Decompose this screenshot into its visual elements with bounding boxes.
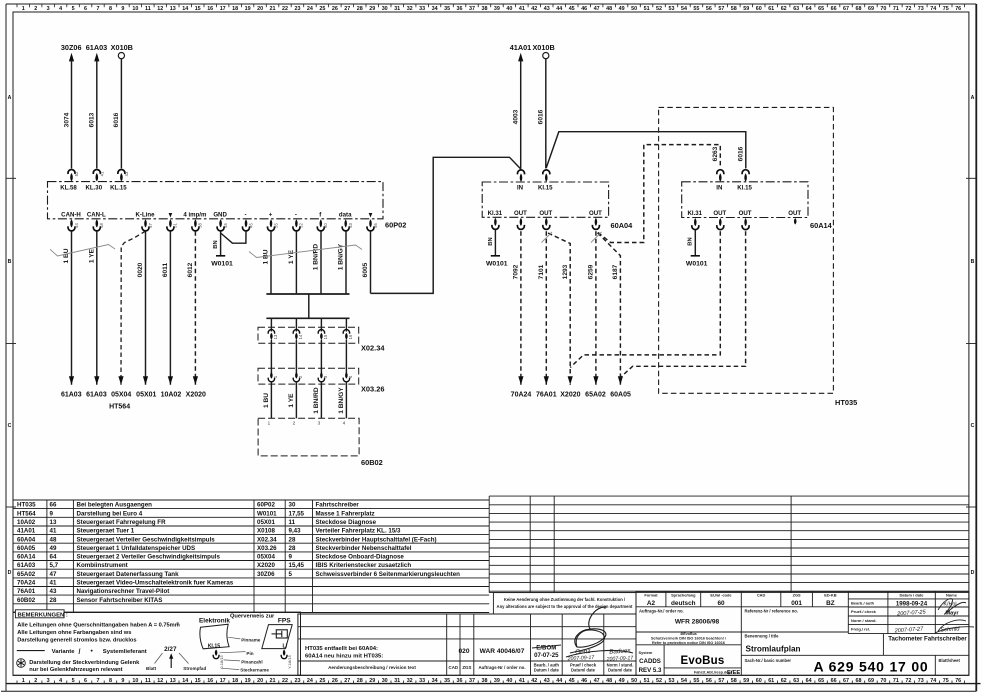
svg-text:CAD: CAD: [757, 593, 766, 598]
svg-text:6011: 6011: [162, 263, 169, 278]
svg-text:Bei belegten Ausgaengen: Bei belegten Ausgaengen: [77, 502, 153, 509]
svg-text:12: 12: [157, 6, 163, 12]
svg-text:E/EE: E/EE: [727, 670, 740, 676]
svg-text:X03.26: X03.26: [257, 545, 277, 552]
svg-text:52: 52: [656, 6, 662, 12]
svg-text:40: 40: [506, 678, 512, 684]
svg-text:1 YE: 1 YE: [288, 393, 295, 408]
remarks block BEMERKUNGEN: [13, 610, 301, 676]
wire 1 BN/GY (X03.26 to 60B02): [338, 387, 345, 414]
svg-text:3: 3: [318, 421, 321, 426]
svg-text:58: 58: [198, 223, 203, 228]
svg-text:05X01: 05X01: [136, 392, 156, 399]
svg-text:K-Line: K-Line: [136, 211, 156, 218]
svg-text:4: 4: [343, 421, 346, 426]
svg-text:CAN-L: CAN-L: [87, 211, 106, 218]
svg-text:60: 60: [323, 223, 328, 228]
svg-text:55: 55: [693, 678, 699, 684]
svg-text:0-18/15: 0-18/15: [219, 654, 224, 668]
svg-text:CAD: CAD: [449, 665, 459, 670]
svg-text:2: 2: [293, 421, 296, 426]
svg-text:76A01: 76A01: [17, 588, 36, 595]
svg-text:D: D: [971, 570, 975, 576]
svg-text:66: 66: [50, 502, 57, 509]
node X010B (terminal circle, right): [532, 43, 554, 59]
svg-text:71: 71: [893, 678, 899, 684]
60P02 pin 53 data: [339, 211, 353, 231]
svg-text:46: 46: [581, 678, 587, 684]
svg-text:Steuergeraet 2 Verteiler Gesch: Steuergeraet 2 Verteiler Geschwindigkeit…: [77, 554, 221, 561]
svg-text:Pin: Pin: [246, 651, 253, 656]
svg-text:2: 2: [34, 678, 37, 684]
svg-text:60A05: 60A05: [610, 392, 631, 399]
svg-text:70: 70: [880, 6, 886, 12]
wire 6011 (to 10A02): [162, 231, 173, 385]
svg-text:C: C: [8, 423, 12, 429]
revision table: [298, 614, 636, 675]
wire branch to 05X04 (dashed variant): [118, 231, 145, 385]
60A14 pin OUT (unconnected): [788, 210, 801, 225]
svg-text:34: 34: [432, 678, 438, 684]
svg-text:11: 11: [145, 6, 151, 12]
svg-text:64: 64: [50, 554, 57, 561]
svg-text:X02.34: X02.34: [257, 536, 277, 543]
svg-text:28: 28: [289, 536, 296, 543]
svg-text:Bearb./ auth: Bearb./ auth: [851, 601, 875, 606]
svg-text:1 BN/RD: 1 BN/RD: [313, 387, 320, 414]
svg-text:BZ: BZ: [826, 600, 835, 607]
wire 1 BN/RD (60P02 to bus): [313, 231, 321, 294]
svg-text:16: 16: [207, 678, 213, 684]
svg-text:61A03: 61A03: [86, 392, 107, 399]
svg-text:Datum / date: Datum / date: [899, 592, 924, 597]
svg-text:7092: 7092: [513, 264, 520, 279]
svg-text:30: 30: [382, 678, 388, 684]
svg-text:6016: 6016: [113, 112, 120, 127]
note HT564: [109, 404, 130, 411]
60P02 pin 48 CAN-L: [87, 211, 106, 231]
cross-reference symbol 2/27 (Blatt / Strompfad): [146, 646, 206, 671]
svg-text:47: 47: [50, 571, 57, 578]
svg-text:49: 49: [619, 6, 625, 12]
svg-text:05X04: 05X04: [111, 392, 131, 399]
60P02 pin 41 KL.30: [85, 170, 104, 192]
60P02 pin 45 -: [243, 211, 254, 231]
svg-text:X2020: X2020: [186, 392, 206, 399]
svg-text:1998-09-24: 1998-09-24: [896, 600, 928, 607]
svg-text:74: 74: [930, 678, 936, 684]
svg-text:Fahrtschreiber: Fahrtschreiber: [316, 502, 360, 509]
svg-text:2/27: 2/27: [164, 646, 177, 653]
svg-text:Steckdose Diagnose: Steckdose Diagnose: [316, 519, 377, 526]
svg-text:57: 57: [718, 678, 724, 684]
svg-text:X02.34: X02.34: [361, 344, 385, 353]
svg-text:Refer to protection notice DIN: Refer to protection notice DIN ISO 16016: [652, 641, 725, 645]
svg-text:72: 72: [905, 678, 911, 684]
svg-text:60A14: 60A14: [17, 554, 36, 561]
svg-text:40: 40: [506, 6, 512, 12]
svg-text:25: 25: [319, 678, 325, 684]
wire 1 YE (60P02 to bus): [288, 231, 296, 294]
svg-text:WAR 40046/07: WAR 40046/07: [480, 648, 525, 655]
svg-text:System: System: [639, 650, 653, 655]
svg-text:Masse 1 Fahrerplatz: Masse 1 Fahrerplatz: [316, 510, 375, 517]
wire 1 BU (60P02 to bus): [263, 231, 271, 294]
svg-text:Keine Aenderung ohne Zustimmun: Keine Aenderung ohne Zustimmung der fach…: [504, 597, 626, 602]
svg-text:Datum / date: Datum / date: [534, 668, 560, 673]
svg-text:15: 15: [195, 678, 201, 684]
svg-text:/: /: [79, 649, 81, 656]
svg-text:61A03: 61A03: [61, 392, 82, 399]
svg-text:KL.15: KL.15: [110, 184, 127, 191]
svg-text:6263: 6263: [712, 146, 719, 161]
svg-text:68: 68: [856, 678, 862, 684]
svg-text:Pinanzahl: Pinanzahl: [241, 659, 262, 664]
60A14 pin Kl.15: [737, 170, 752, 192]
svg-text:17: 17: [220, 6, 226, 12]
svg-text:47: 47: [594, 6, 600, 12]
svg-text:1 BN/GY: 1 BN/GY: [338, 387, 345, 414]
svg-text:60A04: 60A04: [611, 221, 634, 230]
svg-text:1 BN/RD: 1 BN/RD: [313, 244, 320, 271]
svg-text:35: 35: [444, 6, 450, 12]
svg-text:59: 59: [743, 678, 749, 684]
60P02 pin 54 CAN-H: [61, 211, 81, 231]
svg-text:3: 3: [47, 6, 50, 12]
60P02 pin 52 KL.58: [60, 170, 79, 192]
svg-text:X010B: X010B: [532, 43, 554, 52]
svg-text:5: 5: [72, 678, 75, 684]
wire 1 BN/RD (X03.26 to 60B02): [313, 387, 320, 414]
wire 4003: [512, 60, 520, 168]
svg-text:41: 41: [50, 528, 57, 535]
svg-text:63: 63: [793, 6, 799, 12]
svg-text:X0108: X0108: [257, 528, 275, 535]
svg-text:43: 43: [124, 171, 129, 176]
svg-text:45: 45: [569, 6, 575, 12]
svg-text:LI: LI: [282, 643, 287, 649]
svg-text:BN: BN: [688, 237, 694, 245]
svg-text:12: 12: [157, 678, 163, 684]
sensor 60B02 (Fahrtschreiber KITAS): [258, 418, 383, 467]
svg-text:ED-KB: ED-KB: [824, 593, 837, 598]
svg-text:60P02: 60P02: [257, 502, 275, 509]
svg-text:6259: 6259: [588, 264, 595, 279]
wire 1 BU (X03.26 to 60B02): [263, 393, 270, 408]
60P02 pin 60 f: [317, 211, 328, 231]
ground W0101 (below 60A14): [686, 256, 708, 268]
60A14 pin IN: [716, 170, 724, 192]
60A04 pin OUT: [539, 210, 552, 230]
60P02 pin 55 +: [268, 211, 279, 231]
svg-text:B: B: [8, 259, 12, 265]
wire 0020 (K-Line to 05X01): [137, 231, 148, 385]
svg-text:9,43: 9,43: [289, 528, 302, 535]
svg-text:HT564: HT564: [17, 510, 36, 517]
svg-text:69: 69: [868, 6, 874, 12]
X03.26 pin 4: [343, 372, 353, 418]
svg-text:IN: IN: [517, 185, 523, 192]
svg-text:OUT: OUT: [514, 210, 527, 217]
svg-text:nur bei Gelenkfahrzeugen relev: nur bei Gelenkfahrzeugen relevant: [29, 667, 122, 673]
svg-text:50: 50: [631, 6, 637, 12]
svg-text:1 YE: 1 YE: [89, 248, 96, 263]
svg-text:6187: 6187: [612, 264, 619, 279]
variant boundary HT035: [659, 107, 858, 407]
svg-text:28: 28: [357, 6, 363, 12]
svg-text:ZGS: ZGS: [462, 665, 471, 670]
60A04 pin OUT: [589, 210, 602, 230]
wire 6263 (dashed variant, 60A04 OUT to 60A14 IN): [598, 145, 720, 243]
svg-text:Kl.15: Kl.15: [737, 185, 752, 192]
svg-text:60: 60: [756, 6, 762, 12]
X03.26 pin 2: [293, 372, 303, 418]
bus link: [308, 294, 310, 318]
60A04 pin Kl.31: [488, 210, 503, 230]
svg-text:65: 65: [818, 678, 824, 684]
svg-text:Alle Leitungen ohne Querschnit: Alle Leitungen ohne Querschnittangaben h…: [17, 623, 180, 629]
svg-text:64: 64: [806, 678, 812, 684]
60P02 pin 57 K-Line: [136, 211, 156, 231]
60P02 pin 43 KL.15: [110, 170, 129, 192]
svg-text:A 629 540 17 00: A 629 540 17 00: [813, 659, 928, 675]
svg-text:32: 32: [407, 678, 413, 684]
svg-text:61: 61: [768, 6, 774, 12]
svg-text:22: 22: [282, 6, 288, 12]
svg-text:14: 14: [182, 6, 188, 12]
60A04 pin IN: [517, 170, 525, 192]
svg-text:Auftrags-Nr./ order no.: Auftrags-Nr./ order no.: [639, 609, 684, 614]
svg-text:4: 4: [59, 678, 62, 684]
svg-text:43: 43: [544, 6, 550, 12]
svg-text:22: 22: [282, 678, 288, 684]
svg-text:53: 53: [669, 678, 675, 684]
svg-text:Systemlieferant: Systemlieferant: [103, 649, 147, 655]
svg-text:05X04: 05X04: [257, 554, 275, 561]
svg-text:62: 62: [781, 6, 787, 12]
svg-text:Kl.31: Kl.31: [488, 210, 503, 217]
svg-text:Steckdose Onboard-Diagnose: Steckdose Onboard-Diagnose: [316, 554, 405, 561]
svg-text:26: 26: [332, 6, 338, 12]
svg-text:58: 58: [731, 678, 737, 684]
X03.26 pin 3: [318, 372, 328, 418]
svg-text:60: 60: [717, 600, 725, 607]
svg-text:48: 48: [99, 223, 104, 228]
svg-text:14: 14: [182, 678, 188, 684]
svg-text:38: 38: [482, 678, 488, 684]
svg-text:A: A: [8, 95, 12, 101]
svg-text:OUT: OUT: [713, 210, 726, 217]
svg-text:4 imp/m: 4 imp/m: [183, 211, 207, 218]
svg-text:9: 9: [121, 6, 124, 12]
svg-text:75: 75: [943, 678, 949, 684]
svg-text:Y-18/15: Y-18/15: [287, 654, 292, 668]
svg-text:41A01: 41A01: [510, 43, 532, 52]
svg-text:76A01: 76A01: [536, 392, 557, 399]
svg-text:Referenz-Nr / reference no.: Referenz-Nr / reference no.: [745, 609, 799, 614]
svg-text:7101: 7101: [538, 264, 545, 279]
ground W0101 (left): [211, 256, 233, 268]
wire 6016 (X010B to 60A04 KL.15 and 60A14 KL.15): [538, 59, 746, 169]
svg-text:Steckverbinder Hauptschalttafe: Steckverbinder Hauptschalttafel (E-Fach): [316, 536, 437, 543]
svg-text:13: 13: [50, 519, 57, 526]
svg-text:31: 31: [394, 678, 400, 684]
svg-text:67: 67: [843, 6, 849, 12]
svg-text:Sprache/lang: Sprache/lang: [671, 593, 696, 598]
wire BN (GND): [213, 231, 221, 255]
svg-text:54: 54: [681, 6, 687, 12]
60P02 pin 51 (spare): [167, 213, 178, 231]
svg-text:OUT: OUT: [788, 210, 801, 217]
svg-text:54: 54: [74, 223, 79, 228]
svg-text:33: 33: [419, 6, 425, 12]
svg-text:BN: BN: [213, 240, 219, 248]
destination labels 70A24 76A01 X2020 65A02 60A05: [511, 392, 631, 399]
svg-text:C: C: [971, 423, 975, 429]
svg-text:10: 10: [132, 6, 138, 12]
svg-text:37: 37: [469, 678, 475, 684]
svg-text:Datum/ date: Datum/ date: [608, 668, 633, 673]
svg-text:10: 10: [132, 678, 138, 684]
svg-text:Kombiinstrument: Kombiinstrument: [77, 562, 128, 569]
svg-text:70: 70: [880, 678, 886, 684]
60A14 pin Kl.31: [688, 210, 703, 230]
svg-text:HT035: HT035: [835, 398, 857, 407]
title block: [636, 591, 974, 676]
svg-text:27: 27: [344, 678, 350, 684]
svg-text:11: 11: [145, 678, 151, 684]
svg-text:Steuergeraet Datenerfassung Ta: Steuergeraet Datenerfassung Tank: [77, 571, 180, 578]
svg-text:IBIS Kriterienstecker zusaetzl: IBIS Kriterienstecker zusaetzlich: [316, 562, 412, 569]
svg-text:25: 25: [319, 6, 325, 12]
svg-text:33: 33: [419, 678, 425, 684]
svg-text:FPS: FPS: [278, 617, 291, 624]
svg-text:X010B: X010B: [111, 43, 133, 52]
svg-text:53: 53: [669, 6, 675, 12]
svg-text:2: 2: [34, 6, 37, 12]
svg-text:30Z06: 30Z06: [61, 43, 82, 52]
svg-text:53: 53: [348, 223, 353, 228]
svg-text:Steckername: Steckername: [240, 668, 269, 673]
svg-text:58: 58: [731, 6, 737, 12]
svg-text:48: 48: [50, 536, 57, 543]
wire 6013: [89, 60, 97, 168]
svg-text:Darstellung bei Euro 4: Darstellung bei Euro 4: [77, 510, 143, 517]
svg-text:63: 63: [793, 678, 799, 684]
svg-text:Steuergeraet Fahrregelung FR: Steuergeraet Fahrregelung FR: [77, 519, 167, 526]
svg-text:Blatt/sheet: Blatt/sheet: [939, 658, 961, 663]
svg-text:51: 51: [644, 678, 650, 684]
svg-text:52: 52: [299, 223, 304, 228]
svg-text:Schutzvermerk DIN ISO 16016 be: Schutzvermerk DIN ISO 16016 beachten! /: [651, 637, 727, 641]
svg-text:X2020: X2020: [560, 392, 580, 399]
X03.26 pin 1: [268, 372, 278, 418]
svg-text:1 BU: 1 BU: [63, 248, 70, 263]
wire 7101 (to 76A01): [538, 231, 549, 385]
svg-text:ZGS: ZGS: [793, 593, 801, 598]
svg-text:13: 13: [170, 678, 176, 684]
wire 1 BU (CAN-H to 61A03): [63, 231, 74, 385]
svg-text:18: 18: [232, 678, 238, 684]
svg-text:26: 26: [332, 678, 338, 684]
variant mark (left group): [50, 245, 115, 257]
svg-text:Kl.15: Kl.15: [538, 185, 553, 192]
svg-text:Pinname: Pinname: [241, 637, 261, 642]
svg-text:KL.30: KL.30: [85, 184, 102, 191]
svg-text:7: 7: [97, 678, 100, 684]
svg-text:36: 36: [457, 678, 463, 684]
svg-text:62: 62: [781, 678, 787, 684]
svg-text:42: 42: [531, 6, 537, 12]
destination labels 61A03 61A03 05X04 05X01 10A02 X2020: [61, 392, 206, 399]
svg-text:REV 5.3: REV 5.3: [639, 667, 662, 674]
svg-text:Auftrags-Nr / order no.: Auftrags-Nr / order no.: [478, 665, 525, 670]
svg-text:24: 24: [307, 678, 313, 684]
svg-text:020: 020: [458, 648, 469, 655]
svg-text:41: 41: [519, 678, 525, 684]
svg-text:30Z06: 30Z06: [257, 571, 275, 578]
svg-text:17: 17: [220, 678, 226, 684]
X02.34 pin 15: [318, 330, 328, 374]
svg-text:Variante: Variante: [52, 649, 76, 655]
svg-text:Steuergeraet Video-Umschaltele: Steuergeraet Video-Umschaltelektronik fu…: [77, 580, 234, 587]
svg-text:9: 9: [121, 678, 124, 684]
svg-text:CADDS: CADDS: [639, 658, 661, 665]
svg-text:17,55: 17,55: [289, 510, 305, 517]
svg-text:+: +: [269, 211, 273, 218]
svg-text:20: 20: [257, 678, 263, 684]
svg-text:1 YE: 1 YE: [288, 249, 295, 264]
svg-text:72: 72: [905, 6, 911, 12]
svg-text:31: 31: [394, 6, 400, 12]
svg-text:5: 5: [289, 571, 293, 578]
wire bus to X02.34: [295, 318, 297, 331]
svg-text:Kl.31: Kl.31: [688, 210, 703, 217]
svg-text:Pruef./ check: Pruef./ check: [851, 609, 877, 614]
svg-text:07-07-25: 07-07-25: [534, 652, 559, 659]
svg-text:21: 21: [270, 678, 276, 684]
svg-text:3: 3: [47, 678, 50, 684]
svg-text:4: 4: [59, 6, 62, 12]
svg-text:65A02: 65A02: [17, 571, 36, 578]
svg-text:Sach-Nr./ basic number: Sach-Nr./ basic number: [745, 658, 792, 663]
svg-text:28: 28: [357, 678, 363, 684]
svg-text:41: 41: [99, 171, 104, 176]
svg-text:OUT: OUT: [739, 210, 752, 217]
svg-text:15: 15: [195, 6, 201, 12]
svg-text:W0101: W0101: [686, 261, 708, 268]
svg-text:Tachometer Fahrtschreiber: Tachometer Fahrtschreiber: [888, 635, 967, 642]
svg-text:55: 55: [273, 223, 278, 228]
svg-text:D: D: [8, 570, 12, 576]
svg-text:27: 27: [344, 6, 350, 12]
60B02 pins 1 2 3 4: [268, 421, 346, 426]
svg-text:Steuergeraet 1 Unfalldatenspei: Steuergeraet 1 Unfalldatenspeicher UDS: [77, 545, 196, 552]
wire 1 YE (CAN-L to 61A03): [89, 231, 100, 385]
svg-text:W0101: W0101: [486, 261, 508, 268]
svg-text:46: 46: [223, 223, 228, 228]
svg-text:IN: IN: [716, 185, 722, 192]
svg-text:1: 1: [268, 421, 271, 426]
svg-text:44: 44: [556, 6, 562, 12]
svg-text:47: 47: [594, 678, 600, 684]
svg-text:24: 24: [307, 6, 313, 12]
connector X02.34 (Steckverbinder Hauptschalttafel): [258, 327, 385, 352]
wire 6187 (to 60A05): [598, 233, 624, 385]
X02.34 pin 13: [268, 330, 278, 374]
svg-text:11: 11: [289, 519, 296, 526]
svg-text:41A01: 41A01: [17, 528, 36, 535]
